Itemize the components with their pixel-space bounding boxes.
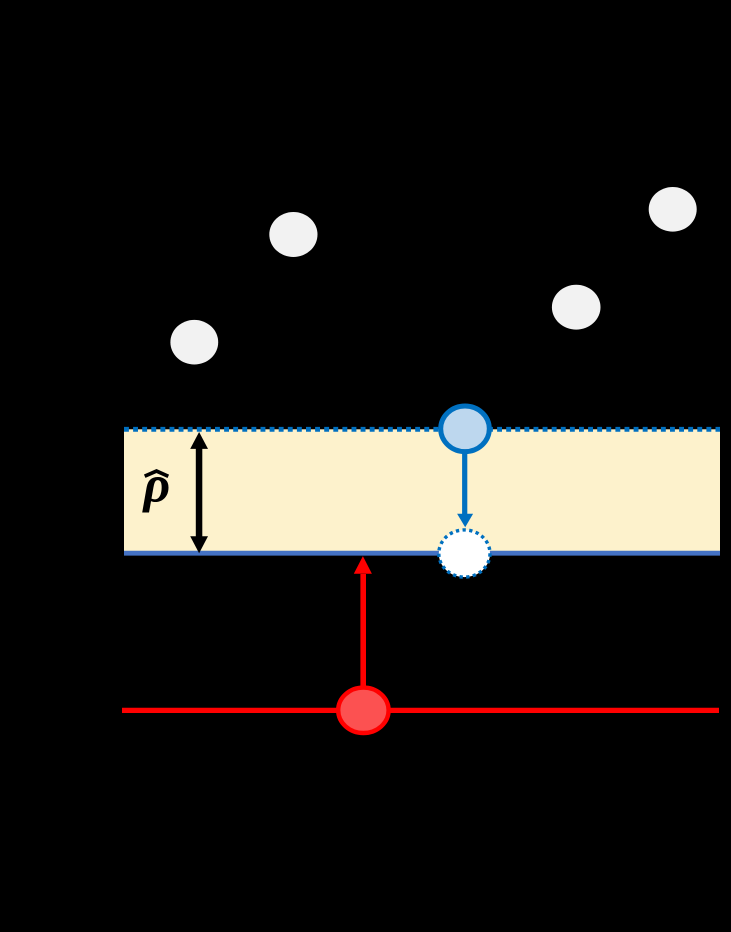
blue circle (particle above band) [441, 406, 490, 452]
blue arrow (projection down) [457, 452, 473, 527]
black double-headed arrow (band width marker) [190, 432, 208, 553]
svg-text:ρ: ρ [142, 457, 171, 514]
rho-hat label [142, 457, 171, 514]
white circle A (top middle-left) [269, 212, 317, 257]
dotted circle (projected particle on lower line) [439, 530, 490, 577]
white circle C (right-middle) [552, 285, 601, 330]
red horizontal line [122, 708, 719, 713]
white circle D (top right) [649, 187, 697, 232]
red circle (particle on red line) [338, 688, 388, 733]
band region (cream) [124, 429, 720, 553]
red arrow (up to band) [354, 556, 372, 689]
white circle B (left) [170, 320, 218, 365]
solid lower boundary line [124, 551, 720, 556]
dotted upper boundary line [124, 427, 720, 432]
